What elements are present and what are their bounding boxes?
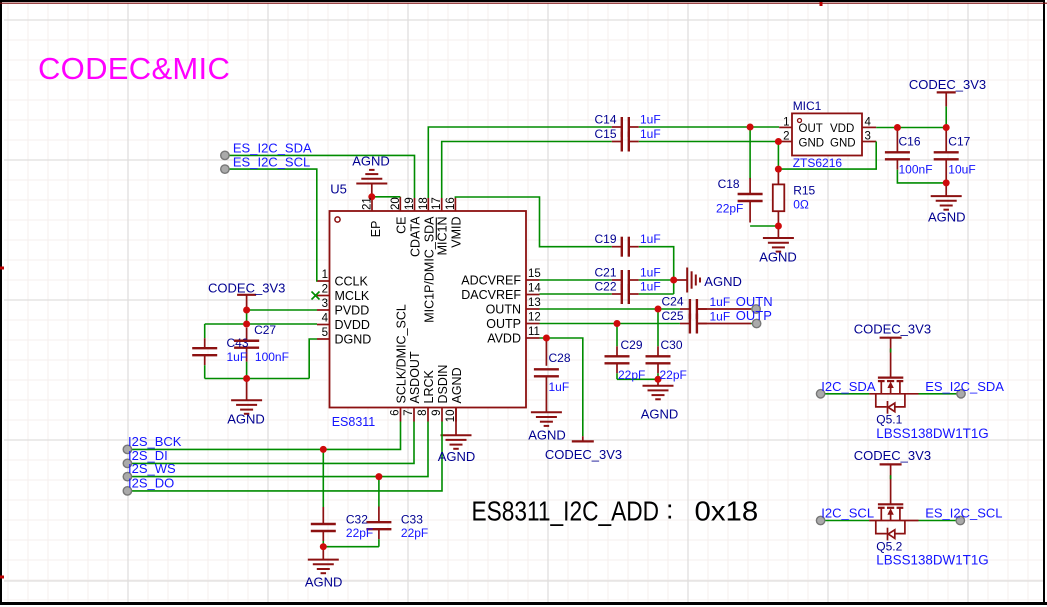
svg-text:5: 5 xyxy=(322,327,328,339)
svg-text:C32: C32 xyxy=(346,513,368,527)
svg-text:CODEC_3V3: CODEC_3V3 xyxy=(909,77,986,92)
svg-text:C14: C14 xyxy=(594,113,616,127)
svg-text:I2S_WS: I2S_WS xyxy=(128,461,176,476)
svg-text:MIC1P/DMIC_SDA: MIC1P/DMIC_SDA xyxy=(422,216,436,323)
svg-text:10: 10 xyxy=(445,410,457,423)
svg-text:OUTP: OUTP xyxy=(486,317,521,331)
svg-text:1: 1 xyxy=(783,116,789,128)
svg-text:CODEC_3V3: CODEC_3V3 xyxy=(208,281,285,296)
svg-text:12: 12 xyxy=(528,312,541,324)
svg-text:C27: C27 xyxy=(254,323,276,337)
svg-text:0x18: 0x18 xyxy=(695,496,759,527)
svg-text:10uF: 10uF xyxy=(948,163,975,177)
svg-text:100nF: 100nF xyxy=(255,350,289,364)
svg-text:C16: C16 xyxy=(899,135,921,149)
svg-text:4: 4 xyxy=(322,313,329,325)
svg-text:6: 6 xyxy=(390,410,402,416)
svg-text:I2C_SDA: I2C_SDA xyxy=(821,379,876,394)
svg-text:AGND: AGND xyxy=(759,250,797,265)
svg-text:14: 14 xyxy=(528,283,541,295)
svg-text:20: 20 xyxy=(390,197,402,210)
svg-text:I2S_DO: I2S_DO xyxy=(128,476,174,491)
svg-text:C17: C17 xyxy=(948,135,970,149)
svg-text:Q5.2: Q5.2 xyxy=(876,539,902,553)
svg-text:OUTN: OUTN xyxy=(486,303,521,317)
svg-text:1uF: 1uF xyxy=(710,295,731,309)
svg-text:C29: C29 xyxy=(621,338,643,352)
svg-text:19: 19 xyxy=(404,197,416,210)
svg-text:OUTP: OUTP xyxy=(736,308,772,323)
svg-text:1uF: 1uF xyxy=(640,113,661,127)
svg-text:ES_I2C_SCL: ES_I2C_SCL xyxy=(233,154,310,169)
svg-text:1uF: 1uF xyxy=(640,232,661,246)
svg-text:Q5.1: Q5.1 xyxy=(876,413,902,427)
svg-text:C15: C15 xyxy=(594,127,616,141)
svg-text:LBSS138DW1T1G: LBSS138DW1T1G xyxy=(876,552,988,567)
svg-text:C25: C25 xyxy=(661,309,683,323)
svg-text:I2C_SCL: I2C_SCL xyxy=(821,506,874,521)
svg-text:ASDOUT: ASDOUT xyxy=(408,351,422,403)
svg-text:AGND: AGND xyxy=(450,367,464,403)
svg-text:3: 3 xyxy=(322,298,328,310)
svg-text:AGND: AGND xyxy=(641,407,679,422)
svg-text:CODEC&MIC: CODEC&MIC xyxy=(38,51,230,86)
svg-text:1uF: 1uF xyxy=(227,350,248,364)
svg-text:I2S_BCK: I2S_BCK xyxy=(128,434,182,449)
svg-text:C21: C21 xyxy=(594,266,616,280)
svg-text:2: 2 xyxy=(322,284,328,296)
svg-text:AGND: AGND xyxy=(227,412,265,427)
svg-text:C18: C18 xyxy=(718,177,740,191)
svg-text:ES_I2C_SDA: ES_I2C_SDA xyxy=(925,379,1004,394)
svg-text:1uF: 1uF xyxy=(640,280,661,294)
svg-text:DACVREF: DACVREF xyxy=(461,288,521,302)
svg-text:17: 17 xyxy=(431,197,443,210)
svg-text:22pF: 22pF xyxy=(401,526,428,540)
svg-text:C33: C33 xyxy=(401,513,423,527)
svg-text:C43: C43 xyxy=(227,336,249,350)
svg-text:1uF: 1uF xyxy=(549,380,570,394)
svg-text:DVDD: DVDD xyxy=(335,318,370,332)
svg-text:AGND: AGND xyxy=(352,154,390,169)
svg-text:SCLK/DMIC_SCL: SCLK/DMIC_SCL xyxy=(395,304,409,403)
svg-text:8: 8 xyxy=(417,410,429,416)
svg-text:CE: CE xyxy=(394,217,408,234)
svg-text:MIC1: MIC1 xyxy=(793,99,822,113)
svg-text:R15: R15 xyxy=(793,184,815,198)
svg-text:ES8311_I2C_ADD: ES8311_I2C_ADD xyxy=(472,496,660,527)
svg-text:AGND: AGND xyxy=(305,575,343,590)
svg-text:C24: C24 xyxy=(661,295,683,309)
svg-text:1uF: 1uF xyxy=(640,266,661,280)
svg-text:CODEC_3V3: CODEC_3V3 xyxy=(854,321,931,336)
svg-text:22pF: 22pF xyxy=(716,202,743,216)
svg-text:3: 3 xyxy=(865,131,871,143)
svg-text:11: 11 xyxy=(528,326,540,338)
svg-text:ES_I2C_SCL: ES_I2C_SCL xyxy=(925,506,1002,521)
svg-text:22pF: 22pF xyxy=(660,368,687,382)
svg-text:LRCK: LRCK xyxy=(422,369,436,403)
svg-text::: : xyxy=(666,495,674,525)
svg-text:VDD: VDD xyxy=(830,123,854,135)
svg-text:AGND: AGND xyxy=(528,428,566,443)
svg-text:ADCVREF: ADCVREF xyxy=(461,274,521,288)
svg-text:OUT: OUT xyxy=(799,123,823,135)
svg-text:9: 9 xyxy=(431,410,443,416)
svg-text:13: 13 xyxy=(528,297,541,309)
svg-text:0Ω: 0Ω xyxy=(793,198,809,212)
svg-text:18: 18 xyxy=(418,197,430,210)
svg-text:22pF: 22pF xyxy=(618,368,645,382)
svg-text:CDATA: CDATA xyxy=(409,216,423,257)
svg-text:AGND: AGND xyxy=(704,274,742,289)
svg-text:4: 4 xyxy=(865,116,872,128)
svg-text:15: 15 xyxy=(528,268,541,280)
svg-text:C22: C22 xyxy=(594,280,616,294)
svg-text:DSDIN: DSDIN xyxy=(436,365,450,404)
svg-text:1: 1 xyxy=(322,269,328,281)
svg-text:MIC1N: MIC1N xyxy=(436,217,450,256)
svg-text:MCLK: MCLK xyxy=(335,289,370,303)
svg-text:AGND: AGND xyxy=(438,449,476,464)
svg-text:1uF: 1uF xyxy=(640,127,661,141)
svg-text:22pF: 22pF xyxy=(346,526,373,540)
svg-text:C30: C30 xyxy=(661,338,683,352)
svg-text:LBSS138DW1T1G: LBSS138DW1T1G xyxy=(876,426,988,441)
svg-text:100nF: 100nF xyxy=(899,163,933,177)
svg-text:1uF: 1uF xyxy=(710,309,731,323)
svg-text:GND: GND xyxy=(830,137,856,149)
svg-text:CODEC_3V3: CODEC_3V3 xyxy=(545,447,622,462)
svg-text:CODEC_3V3: CODEC_3V3 xyxy=(854,448,931,463)
svg-text:7: 7 xyxy=(403,410,415,416)
svg-text:DGND: DGND xyxy=(335,333,372,347)
svg-text:AGND: AGND xyxy=(928,210,966,225)
svg-text:2: 2 xyxy=(783,131,789,143)
svg-text:CCLK: CCLK xyxy=(335,275,369,289)
svg-text:OUTN: OUTN xyxy=(736,294,773,309)
svg-text:C19: C19 xyxy=(594,232,616,246)
svg-text:AVDD: AVDD xyxy=(487,332,521,346)
svg-text:16: 16 xyxy=(445,197,457,210)
svg-text:EP: EP xyxy=(369,221,383,238)
svg-text:VMID: VMID xyxy=(449,217,463,248)
svg-text:GND: GND xyxy=(799,137,825,149)
svg-text:ES8311: ES8311 xyxy=(332,415,376,429)
svg-text:PVDD: PVDD xyxy=(335,304,370,318)
svg-text:U5: U5 xyxy=(330,182,347,197)
svg-text:ZTS6216: ZTS6216 xyxy=(793,156,843,170)
svg-text:C28: C28 xyxy=(549,351,571,365)
svg-text:21: 21 xyxy=(362,197,374,210)
